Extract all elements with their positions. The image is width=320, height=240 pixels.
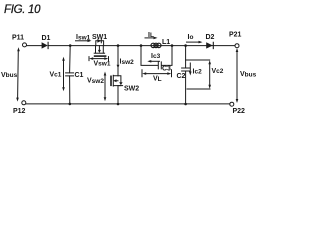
svg-text:Vbus: Vbus: [240, 71, 257, 78]
svg-text:P11: P11: [12, 35, 24, 42]
svg-text:Isw2: Isw2: [120, 59, 135, 66]
SW1 source/drain/body stubs: [96, 46, 104, 54]
current arrow Isw2 (on drain wire): [117, 65, 120, 69]
wire C1 branch lower: [69, 76, 71, 104]
terminal P22: [230, 102, 234, 106]
svg-text:L1: L1: [162, 39, 170, 46]
diode D1: [42, 42, 48, 48]
svg-text:P12: P12: [13, 108, 26, 115]
wire top rail: [27, 45, 235, 47]
wire SW2 drain: [117, 46, 119, 76]
terminal P11: [23, 43, 27, 47]
node: C2 top junction: [184, 44, 187, 47]
node: SW2 drain junction on rail: [117, 44, 120, 47]
current arrow Ic3: [150, 60, 160, 62]
transistor SW1 (MOSFET, in-line on top rail): [94, 39, 105, 56]
inductor L1: [151, 43, 161, 47]
current arrow Isw1: [76, 40, 90, 42]
wire C1 branch upper: [69, 46, 72, 73]
voltage arrow Vc2: [209, 63, 211, 87]
current arrow Io: [187, 41, 201, 43]
capacitor C1: [66, 73, 74, 76]
voltage dimension Vc2 extension lines: [186, 60, 210, 89]
svg-text:Ic3: Ic3: [151, 53, 161, 60]
svg-text:Vbus: Vbus: [1, 72, 18, 79]
svg-text:C3: C3: [162, 66, 171, 73]
svg-text:C2: C2: [177, 73, 186, 80]
voltage arrow Vbus (left): [17, 50, 20, 99]
svg-text:VL: VL: [153, 76, 162, 83]
voltage dimension VL: [142, 70, 172, 77]
current arrow Ic2: [189, 63, 191, 73]
body-diode loop of SW1: [96, 41, 104, 46]
svg-text:Vsw1: Vsw1: [94, 60, 111, 67]
node: C2 bottom junction: [184, 103, 187, 106]
voltage dimension Vsw1: [89, 57, 109, 61]
svg-text:FIG. 10: FIG. 10: [4, 4, 41, 16]
svg-text:C1: C1: [75, 72, 84, 79]
voltage arrow Vbus (right): [236, 51, 238, 100]
voltage arrow Vc1: [63, 60, 65, 89]
wire C2 branch upper: [185, 46, 187, 68]
diode D2: [206, 42, 213, 48]
transistor SW2 (MOSFET, vertical): [111, 75, 123, 86]
svg-text:SW2: SW2: [124, 86, 139, 93]
capacitor C3: [158, 62, 161, 69]
wire SW2 source: [117, 86, 119, 104]
node: C1 top junction: [69, 44, 72, 47]
node: SW2 source junction: [117, 103, 120, 106]
svg-text:Vsw2: Vsw2: [87, 78, 104, 85]
svg-text:Vc2: Vc2: [212, 68, 224, 75]
SW2 stubs and channel: [113, 76, 118, 86]
SW1 channel bar: [94, 52, 104, 54]
node: C1 bottom junction: [69, 103, 72, 106]
wire bottom rail: [26, 103, 230, 105]
capacitor C2: [182, 68, 190, 71]
svg-text:Ic2: Ic2: [193, 68, 203, 75]
body-diode loop of SW2: [118, 76, 121, 86]
voltage arrow Vsw2: [104, 74, 106, 98]
wire C3 loop: [141, 46, 172, 66]
svg-text:P22: P22: [233, 108, 246, 115]
SW1 gate bar: [95, 55, 106, 57]
node: L1/C3 right junction: [171, 44, 174, 47]
SW2 gate bar: [110, 76, 112, 85]
wire C2 branch lower: [185, 71, 187, 104]
terminal P21: [235, 44, 239, 48]
svg-text:P21: P21: [229, 31, 242, 38]
svg-text:Vc1: Vc1: [50, 71, 62, 78]
svg-text:D2: D2: [206, 34, 215, 41]
node: L1/C3 left junction: [140, 44, 143, 47]
svg-text:Io: Io: [188, 34, 194, 41]
svg-text:SW1: SW1: [92, 34, 107, 41]
current arrow IL: [145, 37, 156, 39]
svg-text:D1: D1: [42, 35, 51, 42]
terminal P12: [22, 101, 26, 105]
